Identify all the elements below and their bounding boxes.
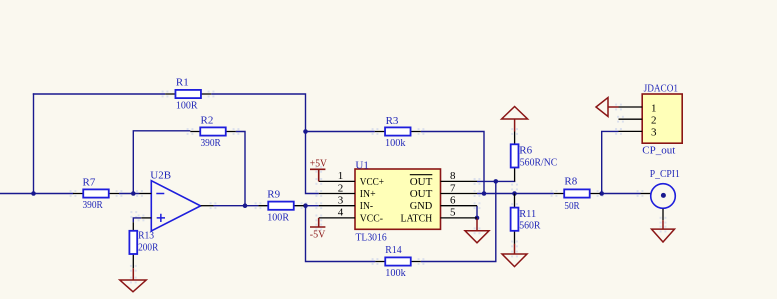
pin 6 GND [410, 195, 477, 213]
wire opamp output [213, 205, 258, 207]
wire R1 right to IN+ node [211, 94, 319, 194]
svg-text:R1: R1 [176, 77, 189, 89]
svg-text:5: 5 [450, 207, 456, 219]
svg-text:3: 3 [338, 195, 344, 207]
resistor R13 [129, 222, 158, 268]
svg-text:R3: R3 [386, 115, 399, 127]
resistor R2 [190, 115, 236, 149]
wire opamp plus corner [133, 218, 141, 222]
wire GND pin6 pin5 [476, 206, 478, 219]
wire input left [0, 193, 73, 195]
svg-text:R8: R8 [564, 175, 577, 187]
svg-text:7: 7 [450, 182, 456, 194]
svg-text:390R: 390R [83, 199, 104, 211]
junction node inv input [131, 191, 136, 196]
junction node A in [31, 191, 36, 196]
wire R14 left vertical [306, 206, 376, 262]
svg-text:R7: R7 [83, 177, 96, 189]
svg-text:100R: 100R [176, 99, 198, 111]
wire R3 right vertical [421, 132, 484, 194]
junction node R8 R11 [512, 191, 517, 196]
svg-text:P_CPI1: P_CPI1 [650, 168, 680, 180]
svg-text:8: 8 [450, 170, 456, 182]
svg-text:JDACO1: JDACO1 [644, 83, 678, 95]
svg-text:50R: 50R [564, 200, 580, 212]
probe P_CPI1 [641, 168, 680, 209]
svg-text:1: 1 [651, 102, 657, 114]
svg-text:IN-: IN- [360, 200, 373, 212]
svg-text:GND: GND [410, 200, 433, 212]
wire pin8 node [477, 180, 515, 182]
resistor R3 [375, 115, 421, 149]
resistor R14 [375, 244, 420, 279]
svg-text:100k: 100k [385, 267, 406, 279]
svg-text:LATCH: LATCH [401, 212, 433, 224]
op-amp U2B [140, 169, 214, 231]
svg-text:3: 3 [651, 127, 657, 139]
wire R3 left [306, 131, 375, 133]
ground below P_CPI1 [652, 209, 675, 242]
junction node opamp out [243, 203, 248, 208]
power arrow above R6 [502, 107, 528, 132]
junction node pin5 gnd [475, 216, 480, 221]
svg-text:R6: R6 [519, 145, 532, 157]
wire R7 right [119, 193, 140, 195]
junction node R1 R3 [303, 129, 308, 134]
wire R1 top left [33, 93, 165, 95]
svg-text:560R/NC: 560R/NC [520, 156, 558, 168]
svg-text:CP_out: CP_out [642, 145, 675, 157]
svg-text:TL3016: TL3016 [356, 231, 388, 243]
svg-text:OUT: OUT [410, 176, 433, 188]
pin 4 VCC- [319, 207, 383, 225]
ground below R13 [120, 268, 146, 292]
resistor R6 [511, 132, 558, 182]
svg-text:6: 6 [450, 195, 456, 207]
pin 3 JDAC [619, 127, 658, 139]
resistor R8 [554, 175, 600, 212]
svg-text:2: 2 [338, 182, 344, 194]
pin 2 IN+ [319, 182, 376, 200]
svg-text:100k: 100k [385, 137, 406, 149]
resistor R7 [73, 177, 119, 212]
pin 2 JDAC [619, 115, 657, 127]
svg-text:R11: R11 [519, 208, 536, 220]
power +5V [310, 157, 327, 181]
ground below pin5 [465, 219, 489, 243]
svg-text:OUT: OUT [410, 188, 433, 200]
power -5V [310, 218, 326, 241]
junction node R8 out [599, 191, 604, 196]
svg-text:IN+: IN+ [360, 188, 376, 200]
svg-text:2: 2 [651, 115, 657, 127]
hotspot grid markers [70, 91, 667, 284]
wire R2 right vertical [236, 132, 245, 206]
wire R9 right to pin3 [304, 205, 319, 207]
pin 1 JDAC [619, 102, 657, 114]
wire R2 left vertical [133, 131, 190, 194]
wire R1 left vertical [33, 93, 35, 193]
op-amp U1 comparator body [355, 159, 441, 243]
pin 5 LATCH [401, 207, 478, 225]
svg-text:R14: R14 [385, 244, 402, 256]
svg-text:560R: 560R [519, 219, 541, 231]
power arrow left of JDAC [596, 98, 619, 117]
svg-text:+5V: +5V [310, 157, 327, 169]
pin 7 OUT [410, 182, 477, 200]
svg-text:200R: 200R [138, 241, 159, 253]
junction node IN- [303, 203, 308, 208]
connector JDACO1 [642, 83, 682, 157]
pin 1 VCC+ [319, 170, 384, 188]
power arrow below R11 [502, 244, 527, 267]
wire JDAC pin3 vertical [602, 131, 619, 193]
junction node R3 OUT [482, 191, 487, 196]
svg-text:U1: U1 [355, 159, 368, 171]
svg-text:4: 4 [338, 207, 344, 219]
pin 8 OUTbar [410, 170, 477, 188]
wire R8 right [600, 193, 641, 195]
svg-text:-5V: -5V [310, 228, 326, 240]
svg-text:VCC-: VCC- [360, 212, 383, 224]
svg-text:1: 1 [338, 170, 344, 182]
svg-text:390R: 390R [201, 137, 222, 149]
resistor R9 [258, 188, 303, 223]
resistor R11 [511, 194, 541, 244]
junction node OUTbar [494, 179, 499, 184]
svg-text:R2: R2 [201, 115, 214, 127]
svg-text:VCC+: VCC+ [360, 176, 384, 188]
svg-text:U2B: U2B [150, 169, 171, 181]
svg-text:R9: R9 [267, 188, 280, 200]
wire OUT row pin7 [477, 193, 554, 195]
pin 3 IN- [319, 195, 373, 213]
wire R14 right vertical [421, 181, 496, 261]
svg-text:100R: 100R [267, 211, 289, 223]
resistor R1 [165, 77, 211, 112]
